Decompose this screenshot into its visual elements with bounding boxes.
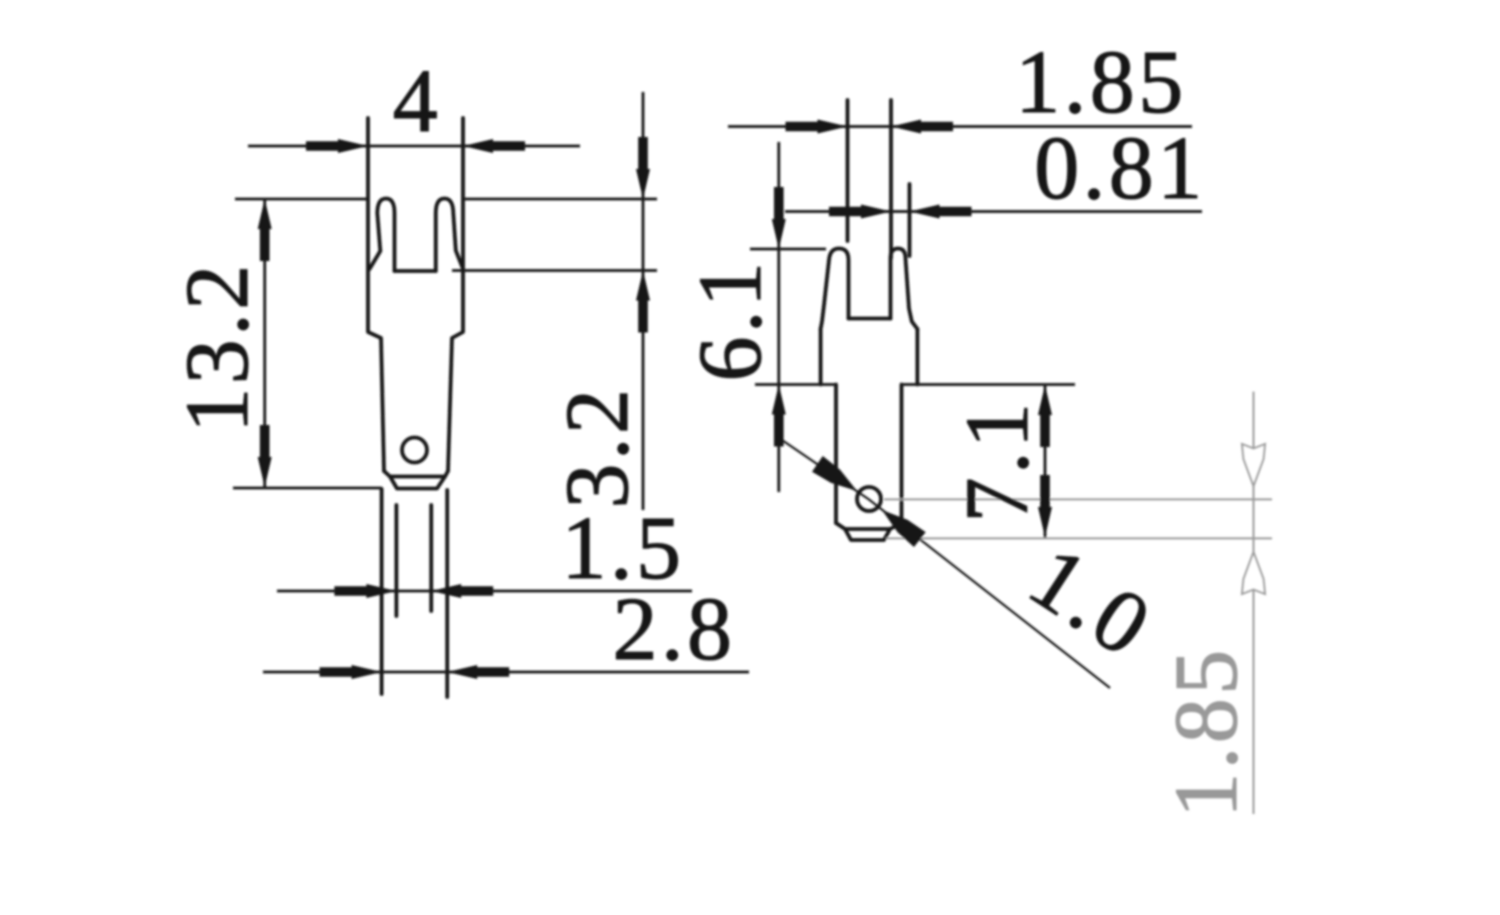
svg-text:13.2: 13.2 bbox=[168, 261, 267, 433]
svg-text:1.85: 1.85 bbox=[1157, 646, 1256, 818]
svg-text:0.81: 0.81 bbox=[1034, 119, 1206, 218]
svg-text:1.85: 1.85 bbox=[1015, 33, 1187, 132]
svg-text:7.1: 7.1 bbox=[948, 400, 1047, 523]
svg-text:4: 4 bbox=[393, 52, 442, 151]
svg-text:2.8: 2.8 bbox=[613, 580, 736, 679]
svg-text:3.2: 3.2 bbox=[548, 386, 647, 509]
svg-text:6.1: 6.1 bbox=[681, 259, 780, 382]
